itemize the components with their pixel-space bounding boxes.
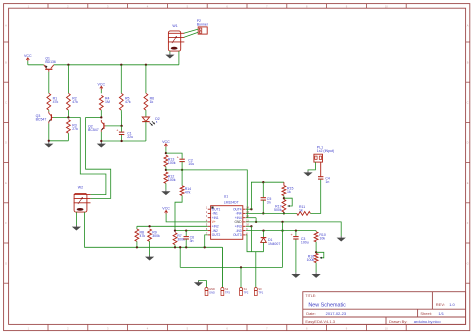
svg-text:1.0: 1.0 xyxy=(449,302,455,307)
svg-text:1n: 1n xyxy=(325,180,329,184)
svg-text:G: G xyxy=(467,261,469,265)
svg-text:47k: 47k xyxy=(53,100,59,104)
svg-text:47k: 47k xyxy=(125,100,131,104)
svg-text:Date:: Date: xyxy=(306,311,316,316)
svg-text:VCC: VCC xyxy=(98,83,106,87)
svg-text:1k: 1k xyxy=(299,208,303,212)
svg-text:3n: 3n xyxy=(267,201,271,205)
svg-text:New Schematic: New Schematic xyxy=(308,303,346,309)
svg-text:arduino.by.nico: arduino.by.nico xyxy=(414,319,442,324)
svg-text:100k: 100k xyxy=(168,161,176,165)
svg-text:E: E xyxy=(467,181,469,185)
svg-text:Drawn By:: Drawn By: xyxy=(389,319,407,324)
svg-text:1x2 (INput): 1x2 (INput) xyxy=(317,149,334,153)
svg-text:300k: 300k xyxy=(152,234,160,238)
svg-text:47k: 47k xyxy=(185,191,191,195)
svg-text:BC547: BC547 xyxy=(88,128,99,132)
svg-text:22u: 22u xyxy=(127,135,133,139)
svg-text:TP1: TP1 xyxy=(258,290,263,294)
svg-text:D: D xyxy=(467,141,469,145)
svg-text:OUT3: OUT3 xyxy=(233,233,242,237)
svg-text:47k: 47k xyxy=(140,234,146,238)
svg-text:10u: 10u xyxy=(188,162,194,166)
svg-text:TITLE:: TITLE: xyxy=(305,294,316,298)
svg-text:VCC: VCC xyxy=(162,207,170,211)
svg-text:V+: V+ xyxy=(212,220,216,224)
svg-text:OUT2: OUT2 xyxy=(212,233,221,237)
svg-text:47k: 47k xyxy=(72,100,78,104)
svg-text:GND: GND xyxy=(235,220,243,224)
svg-text:A: A xyxy=(467,23,469,27)
svg-text:REV:: REV: xyxy=(436,302,445,307)
svg-text:1/1: 1/1 xyxy=(438,311,444,316)
svg-text:S2: S2 xyxy=(225,287,229,291)
svg-text:S0: S0 xyxy=(258,287,262,291)
svg-text:GND: GND xyxy=(209,290,215,294)
svg-text:100k: 100k xyxy=(307,258,315,262)
svg-text:D: D xyxy=(5,141,7,145)
svg-text:100u: 100u xyxy=(301,240,309,244)
svg-text:BD136: BD136 xyxy=(45,60,55,64)
svg-text:B: B xyxy=(467,60,469,64)
svg-text:TP2: TP2 xyxy=(244,290,249,294)
svg-text:VCC: VCC xyxy=(162,140,170,144)
svg-text:Bonner: Bonner xyxy=(197,23,209,27)
svg-text:S1: S1 xyxy=(244,287,248,291)
svg-text:1N4007: 1N4007 xyxy=(268,242,280,246)
svg-text:100k: 100k xyxy=(168,178,176,182)
svg-text:W2: W2 xyxy=(78,186,83,190)
svg-text:VCC: VCC xyxy=(24,54,32,58)
svg-text:G: G xyxy=(5,261,7,265)
svg-text:TP3: TP3 xyxy=(225,290,230,294)
svg-text:E: E xyxy=(5,181,7,185)
svg-text:D2: D2 xyxy=(155,117,160,121)
svg-text:C: C xyxy=(467,101,469,105)
svg-text:A: A xyxy=(5,23,7,27)
svg-text:BC547: BC547 xyxy=(36,118,47,122)
svg-text:LM324DT: LM324DT xyxy=(224,201,239,205)
svg-text:500k: 500k xyxy=(274,208,282,212)
svg-text:1M: 1M xyxy=(105,100,110,104)
svg-text:1k: 1k xyxy=(287,190,291,194)
svg-text:Sheet:: Sheet: xyxy=(420,311,432,316)
svg-text:W1: W1 xyxy=(172,24,177,28)
svg-text:27k: 27k xyxy=(72,127,78,131)
svg-text:3n: 3n xyxy=(190,239,194,243)
svg-text:B: B xyxy=(5,60,7,64)
svg-text:EasyEDA V4.1.3: EasyEDA V4.1.3 xyxy=(305,319,335,324)
svg-text:U1: U1 xyxy=(224,195,228,199)
svg-text:2017-02-23: 2017-02-23 xyxy=(326,311,347,316)
svg-text:C: C xyxy=(5,101,7,105)
svg-text:GND: GND xyxy=(209,287,215,291)
svg-text:1k: 1k xyxy=(150,100,154,104)
svg-text:10k: 10k xyxy=(319,236,325,240)
